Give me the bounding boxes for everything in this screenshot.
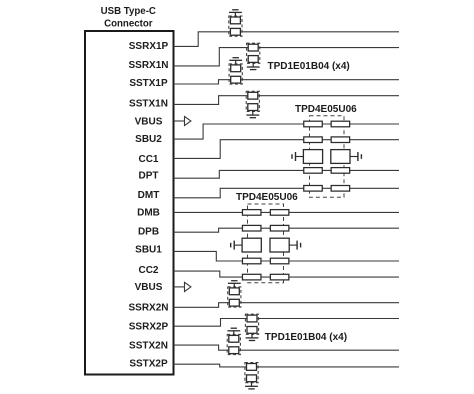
U1 channel pin cell row1 col2 [331, 121, 350, 127]
U2 channel pin cell row2 col1 [242, 225, 261, 231]
wire SBU2 [174, 124, 400, 139]
ground [245, 386, 258, 389]
svg-text:TPD4E05U06: TPD4E05U06 [236, 192, 298, 203]
IC U1 TPD4E05U06 package outline (dashed) [310, 116, 345, 197]
IC U2 TPD4E05U06 package outline (dashed) [248, 204, 284, 283]
svg-text:DPT: DPT [139, 171, 159, 182]
wire DMB [174, 211, 400, 213]
svg-text:SBU1: SBU1 [135, 244, 162, 255]
ESD cell D7 (TPD1E01B04) [227, 331, 240, 355]
connector title [101, 6, 156, 29]
wire SSRX2N [174, 303, 400, 308]
svg-text:SSRX1N: SSRX1N [128, 60, 168, 71]
svg-text:SSRX2N: SSRX2N [128, 303, 168, 314]
ground [229, 58, 242, 61]
VBUS arrow at y=286.9 [174, 282, 191, 291]
U2 channel pin cell row4 col1 [242, 274, 261, 280]
ground stub right of U2 [289, 241, 301, 250]
U2 channel pin cell row3 col2 [270, 258, 289, 264]
ESD cell D4 (TPD1E01B04) [246, 91, 259, 115]
ground [227, 328, 240, 331]
svg-text:CC1: CC1 [138, 154, 158, 165]
svg-text:TPD4E05U06: TPD4E05U06 [295, 104, 357, 115]
svg-text:VBUS: VBUS [135, 117, 163, 128]
U1 channel pin cell row2 col2 [331, 137, 350, 143]
U1 GND pad square col1 [303, 150, 322, 164]
U1 channel pin cell row4 col1 [304, 186, 323, 192]
svg-text:SSTX1P: SSTX1P [129, 78, 168, 89]
wire SSTX1P [174, 80, 400, 84]
svg-text:SSTX1N: SSTX1N [129, 99, 168, 110]
U2 channel pin cell row4 col2 [270, 274, 289, 280]
ground [247, 67, 260, 70]
svg-text:DMT: DMT [138, 190, 160, 201]
ground [246, 115, 259, 118]
U1 channel pin cell row2 col1 [304, 137, 323, 143]
U1 channel pin cell row1 col1 [304, 121, 323, 127]
U2 channel pin cell row1 col1 [242, 210, 261, 216]
svg-text:SSTX2N: SSTX2N [129, 340, 168, 351]
wire DPT [174, 170, 400, 178]
U2 GND pad square col1 [242, 238, 261, 252]
U1 GND pad square col2 [331, 150, 350, 164]
wire SSTX2P [174, 364, 400, 367]
svg-text:USB Type-C: USB Type-C [101, 6, 156, 17]
ground stub left of U2 [231, 241, 243, 250]
wire SSRX1P [174, 32, 400, 47]
wire CC2 [174, 271, 400, 277]
svg-text:Connector: Connector [104, 19, 153, 30]
ESD cell D8 (TPD1E01B04) [245, 363, 258, 387]
svg-text:TPD1E01B04 (x4): TPD1E01B04 (x4) [265, 332, 347, 343]
svg-text:SBU2: SBU2 [135, 134, 162, 145]
svg-text:CC2: CC2 [138, 265, 158, 276]
U2 channel pin cell row2 col2 [270, 225, 289, 231]
U2 channel pin cell row3 col1 [242, 258, 261, 264]
wire DPB [174, 228, 400, 232]
ESD cell D6 (TPD1E01B04) [245, 314, 258, 338]
svg-text:VBUS: VBUS [135, 282, 163, 293]
ground [246, 338, 259, 341]
ground [229, 10, 242, 13]
svg-text:SSRX2P: SSRX2P [129, 321, 169, 332]
ESD cell D5 (TPD1E01B04) [228, 283, 241, 307]
U2 GND pad square col2 [270, 238, 289, 252]
ESD cell D3 (TPD1E01B04) [229, 60, 242, 84]
U2 channel pin cell row1 col2 [270, 210, 289, 216]
wire SSTX1N [174, 96, 400, 105]
U1 channel pin cell row3 col2 [331, 168, 350, 174]
svg-text:SSTX2P: SSTX2P [129, 358, 168, 369]
wire SSRX1N [174, 48, 400, 66]
ground stub left of U1 [292, 152, 304, 161]
wire CC1 [174, 140, 400, 159]
wire SSTX2N [174, 345, 400, 350]
wire SSRX2P [174, 319, 400, 327]
U1 channel pin cell row3 col1 [304, 168, 323, 174]
U1 channel pin cell row4 col2 [331, 186, 350, 192]
ground [228, 281, 241, 284]
svg-text:DPB: DPB [138, 226, 159, 237]
svg-text:SSRX1P: SSRX1P [129, 41, 169, 52]
wire DMT [174, 188, 400, 198]
wire SBU1 [174, 251, 400, 261]
ESD cell D1 (TPD1E01B04) [229, 12, 242, 36]
ground stub right of U1 [350, 152, 362, 161]
svg-text:TPD1E01B04 (x4): TPD1E01B04 (x4) [268, 61, 350, 72]
svg-text:DMB: DMB [137, 207, 160, 218]
VBUS arrow at y=121 [174, 116, 191, 125]
ESD cell D2 (TPD1E01B04) [247, 43, 260, 67]
USB Type-C connector J1 body [85, 31, 174, 375]
